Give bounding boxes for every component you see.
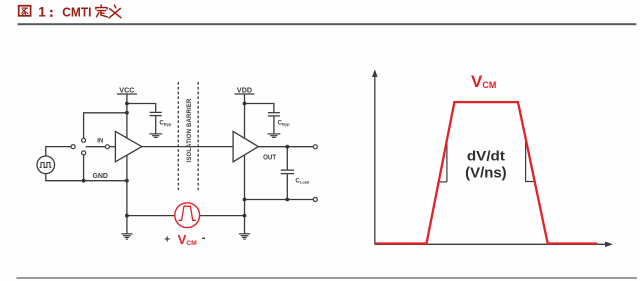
svg-text:-: -: [202, 232, 206, 244]
svg-text:CByp: CByp: [159, 119, 172, 126]
svg-text:(V/ns): (V/ns): [465, 164, 507, 181]
svg-text:VCC: VCC: [119, 87, 134, 94]
svg-text:1: 1: [38, 4, 46, 19]
svg-text:IN: IN: [97, 137, 104, 144]
svg-text:+: +: [164, 234, 170, 245]
svg-text:dV/dt: dV/dt: [467, 147, 505, 163]
svg-text:CByp: CByp: [278, 120, 291, 127]
svg-text:CMTI: CMTI: [62, 4, 91, 19]
svg-text:VDD: VDD: [237, 87, 252, 94]
svg-text:CLoad: CLoad: [295, 177, 309, 184]
svg-text:OUT: OUT: [263, 155, 277, 162]
svg-text:ISOLATION BARRIER: ISOLATION BARRIER: [186, 98, 193, 162]
svg-text:GND: GND: [92, 173, 108, 180]
